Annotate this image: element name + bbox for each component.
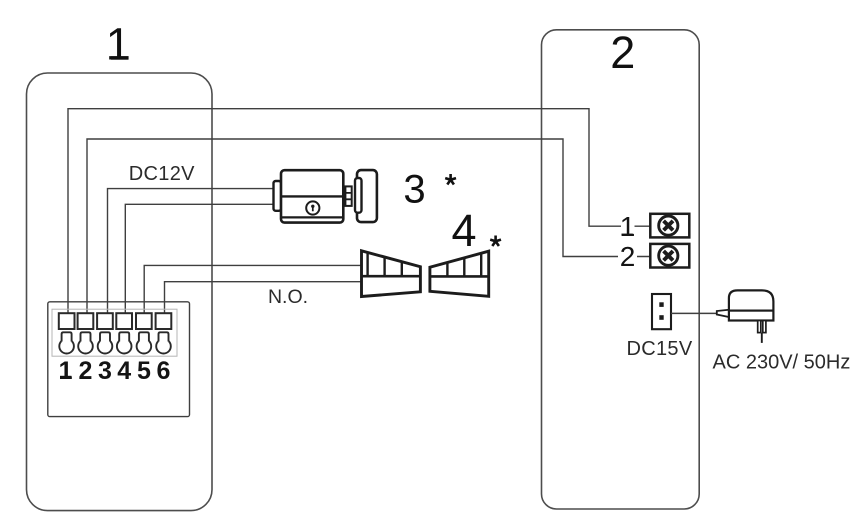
adapter lower body (729, 311, 774, 321)
door sensor right half (430, 251, 489, 296)
wire pin1 to screw 1 (68, 109, 650, 316)
monitor box 1 (indoor unit outline) (27, 73, 213, 511)
lock left tab (274, 181, 282, 211)
terminal square pin 4 (116, 313, 132, 329)
asterisk near 3 (445, 174, 456, 185)
svg-text:6: 6 (157, 357, 171, 385)
DC15V socket (652, 294, 671, 329)
terminal socket 3 (98, 332, 113, 353)
wire DC12V + to lock (108, 189, 274, 316)
svg-text:1: 1 (59, 357, 73, 385)
svg-text:4: 4 (117, 357, 131, 385)
plug nose (717, 310, 729, 317)
wire N.O. bottom to sensor (165, 282, 362, 316)
terminal socket 2 (78, 332, 93, 353)
power adapter (717, 290, 774, 343)
screw terminal 2 (650, 244, 689, 268)
power cord (671, 312, 717, 314)
adapter dome body (729, 290, 774, 310)
svg-text:2: 2 (620, 241, 636, 272)
door station box 2 (outdoor unit outline) (542, 30, 700, 509)
lock body (281, 170, 343, 222)
terminal socket 1 (59, 332, 74, 353)
screw terminal 1 label (620, 211, 636, 242)
svg-text:DC15V: DC15V (627, 338, 693, 360)
svg-text:3: 3 (98, 357, 112, 385)
svg-text:1: 1 (620, 211, 636, 242)
label 1 (106, 19, 131, 70)
lock bottom band (281, 216, 343, 218)
terminal square pin 6 (156, 313, 172, 329)
terminal socket 6 (156, 332, 171, 353)
lock body dividing line (281, 195, 343, 197)
svg-text:3: 3 (403, 167, 425, 211)
wire N.O. top to sensor (144, 265, 361, 316)
electric lock U3 (274, 170, 377, 223)
strike big plate (357, 170, 377, 222)
terminal square pin 1 (59, 313, 75, 329)
svg-text:1: 1 (106, 19, 131, 70)
wire pin2 to screw 2 (87, 139, 650, 316)
svg-text:N.O.: N.O. (268, 286, 308, 308)
strike thin plate (355, 178, 362, 213)
terminal square pin 3 (97, 313, 113, 329)
label 4 (451, 205, 476, 256)
svg-text:2: 2 (79, 357, 93, 385)
plug prongs (758, 321, 761, 333)
terminal socket 4 (117, 332, 132, 353)
lock knob (345, 186, 351, 206)
svg-text:5: 5 (137, 357, 151, 385)
keyhole (306, 201, 319, 214)
screw terminal 1 (650, 214, 689, 238)
svg-text:2: 2 (610, 27, 635, 78)
terminal socket 5 (137, 332, 152, 353)
svg-text:4: 4 (451, 205, 476, 256)
terminal block outer (48, 302, 190, 417)
asterisk near 4 (490, 236, 501, 247)
terminal square pin 5 (136, 313, 152, 329)
terminal square pin 2 (78, 313, 94, 329)
door sensor left half (362, 251, 421, 297)
plug pin (761, 333, 763, 343)
terminal block inner plate (52, 309, 177, 356)
svg-text:AC 230V/ 50Hz: AC 230V/ 50Hz (713, 352, 851, 374)
wire DC12V - to lock (125, 204, 273, 316)
svg-text:DC12V: DC12V (129, 163, 195, 185)
